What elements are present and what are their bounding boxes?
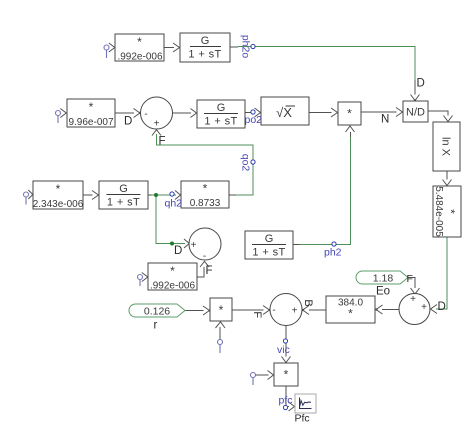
- svg-text:1 + sT: 1 + sT: [204, 116, 237, 128]
- svg-text:*: *: [203, 182, 208, 196]
- node marker po2: [251, 110, 255, 114]
- wire net ph2o: B1 out to N/D top (node D): [230, 47, 420, 102]
- wire Eo capsule to S3 top: [408, 278, 420, 295]
- svg-text:-: -: [203, 251, 206, 262]
- label F rotated at S4 left input: [251, 311, 263, 318]
- wire S1 to B5: [173, 109, 197, 118]
- wire S3 to 384 box: [375, 305, 399, 314]
- svg-text:5.484e-005: 5.484e-005: [433, 186, 444, 237]
- svg-text:*: *: [56, 182, 61, 196]
- svg-text:D: D: [174, 245, 182, 257]
- input terminal T1: [104, 43, 115, 58]
- svg-text:-: -: [272, 305, 275, 316]
- input terminal T2: [56, 109, 67, 124]
- svg-text:ln X: ln X: [440, 137, 452, 157]
- svg-text:9.96e-007: 9.96e-007: [68, 117, 113, 128]
- svg-text:N/D: N/D: [406, 107, 425, 119]
- svg-text:G: G: [265, 233, 274, 245]
- wire B11 to S2 bottom (node F): [197, 261, 209, 277]
- svg-text:*: *: [170, 264, 175, 278]
- svg-text:qo2: qo2: [240, 154, 252, 172]
- svg-text:2.343e-006: 2.343e-006: [33, 199, 84, 210]
- svg-text:*: *: [347, 107, 352, 121]
- svg-text:Eo: Eo: [376, 286, 390, 298]
- svg-text:√X: √X: [276, 105, 292, 120]
- summer S2: [189, 228, 221, 262]
- svg-text:+: +: [154, 119, 160, 130]
- svg-text:G: G: [201, 35, 210, 47]
- svg-text:D: D: [124, 116, 132, 128]
- svg-text:+: +: [421, 302, 427, 313]
- multiplier B14 384.0: [326, 296, 375, 323]
- junction dot on qh2 drop wire: [170, 242, 174, 246]
- svg-text:.992e-006: .992e-006: [117, 52, 162, 63]
- svg-text:1.18: 1.18: [373, 273, 394, 285]
- multiplier B0 1.992e-006: [115, 34, 164, 63]
- node marker vic: [283, 339, 287, 343]
- svg-text:ph2o: ph2o: [240, 35, 252, 59]
- svg-text:1 + sT: 1 + sT: [107, 197, 140, 209]
- wire B3 to B4: [83, 191, 99, 200]
- svg-text:*: *: [284, 368, 289, 382]
- node marker ph2: [332, 242, 336, 246]
- input terminal T6: [251, 371, 274, 386]
- sqrt block B6: [261, 97, 309, 125]
- label ph2o: [240, 35, 252, 59]
- transfer function B4 G/(1+sT): [99, 181, 148, 209]
- svg-text:-: -: [144, 109, 147, 120]
- node marker ph2o: [251, 44, 255, 48]
- svg-text:G: G: [217, 102, 226, 114]
- svg-text:N: N: [381, 114, 389, 126]
- svg-text:1 + sT: 1 + sT: [188, 49, 221, 61]
- input terminal T3: [24, 190, 33, 205]
- svg-text:qh2: qh2: [165, 198, 183, 210]
- wire net qo2: B13 out up to S1 bottom (node F): [152, 130, 253, 195]
- wire net ph2: B8 out up to B7 bottom: [293, 126, 355, 245]
- svg-text:F: F: [159, 136, 166, 148]
- svg-text:vic: vic: [277, 344, 290, 356]
- svg-text:G: G: [119, 183, 128, 195]
- svg-text:*: *: [137, 35, 142, 49]
- wire B9 to S4 (node F): [232, 306, 271, 315]
- multiplier B11 1.992e-006: [148, 263, 197, 292]
- wire lnX to B12: [443, 171, 452, 186]
- ln block lnX: [433, 122, 460, 171]
- svg-text:.992e-006: .992e-006: [150, 281, 195, 292]
- summer S1: [141, 97, 173, 130]
- wire B6 to B7: [309, 108, 338, 117]
- import tag r 0.126: [129, 304, 185, 318]
- wire B10 to pfc marker and plot: [286, 386, 295, 411]
- input terminal T7: [138, 273, 148, 287]
- wire ND to lnX: [428, 111, 453, 122]
- multiplier B13 0.8733: [181, 181, 229, 209]
- svg-text:F: F: [407, 273, 413, 285]
- svg-text:+: +: [410, 294, 416, 305]
- wire B12 to S3 (node D, green): [431, 237, 448, 314]
- multiplier B9: [210, 298, 232, 321]
- wire B2 to S1: [115, 109, 141, 118]
- label B rotated at S4 right input: [302, 299, 314, 306]
- svg-text:*: *: [348, 307, 353, 321]
- wire B5 to B6 (po2): [245, 108, 261, 117]
- svg-text:*: *: [444, 209, 458, 214]
- import tag Eo 1.18: [356, 271, 408, 285]
- multiplier B12 5.484e-005 (rotated): [433, 186, 461, 237]
- svg-text:Pfc: Pfc: [295, 413, 310, 424]
- multiplier B7: [338, 102, 361, 125]
- svg-text:F: F: [206, 265, 213, 277]
- summer S3: [399, 294, 430, 325]
- svg-text:r: r: [154, 320, 158, 332]
- node marker qo2: [251, 160, 255, 164]
- wire B7 to ND (node N): [361, 108, 403, 117]
- svg-text:B: B: [302, 299, 314, 306]
- divider U1 N/D: [403, 101, 428, 122]
- input terminal T5: [216, 322, 226, 353]
- wire net qh2: B4 out, junction, to B13 and down to S2 (node D): [148, 191, 189, 249]
- svg-text:+: +: [292, 306, 298, 317]
- transfer function B8 G/(1+sT): [245, 231, 293, 259]
- svg-text:ph2: ph2: [324, 247, 342, 259]
- wire capsule r to B9: [185, 306, 211, 315]
- wire B0 to B1: [164, 43, 180, 52]
- node marker pfc: [283, 405, 287, 409]
- svg-text:F: F: [251, 311, 263, 318]
- svg-text:1 + sT: 1 + sT: [252, 247, 285, 259]
- svg-text:po2: po2: [245, 114, 263, 126]
- svg-text:pfc: pfc: [279, 395, 293, 407]
- label qo2: [240, 154, 252, 172]
- junction dot qh2: [154, 193, 158, 197]
- multiplier B2 9.96e-007: [67, 99, 115, 128]
- svg-text:+: +: [191, 240, 197, 251]
- svg-text:*: *: [219, 303, 224, 317]
- summer S4: [270, 294, 302, 326]
- output channel icon Pfc: [295, 394, 316, 413]
- svg-text:*: *: [89, 100, 94, 114]
- svg-text:0.126: 0.126: [144, 306, 170, 318]
- transfer function B1 G/(1+sT): [180, 33, 230, 62]
- multiplier B10: [274, 363, 298, 386]
- wire 384 box to S4 (node B): [302, 306, 326, 315]
- multiplier B3 2.343e-006: [33, 181, 84, 210]
- svg-text:0.8733: 0.8733: [190, 198, 221, 209]
- svg-text:D: D: [417, 78, 425, 90]
- node marker qh2: [170, 192, 174, 196]
- wire S4 to B10 (vic): [282, 326, 291, 363]
- svg-text:D: D: [438, 301, 446, 313]
- transfer function B5 G/(1+sT): [197, 100, 245, 128]
